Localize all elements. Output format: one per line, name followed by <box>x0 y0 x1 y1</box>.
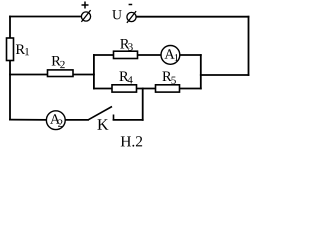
label R5 <box>162 72 175 84</box>
wire junction drop down <box>142 89 144 120</box>
wire mid-left from left wire to R2 <box>10 74 48 76</box>
label R1 <box>16 45 29 56</box>
wire A2 to switch pivot <box>65 119 88 121</box>
ammeter A1 <box>161 46 180 65</box>
wire right side down <box>248 17 250 75</box>
wire A1 to right bar <box>180 54 201 56</box>
switch K blade <box>88 107 112 120</box>
wire R5 to right bar <box>180 88 201 90</box>
wire top branch to R3 <box>94 54 114 56</box>
label R3 <box>120 39 133 51</box>
resistor R5 <box>156 85 180 92</box>
wire R4 to R5 through junction <box>137 88 156 90</box>
terminal - (negative supply post) <box>127 5 136 23</box>
node left bar of parallel block <box>93 55 95 89</box>
wire drop bottom to switch contact <box>114 119 143 121</box>
resistor R1 <box>7 38 14 61</box>
label R2 <box>52 56 65 68</box>
wire bottom branch to R4 <box>94 88 112 90</box>
label R4 <box>119 72 132 84</box>
resistor R4 <box>112 85 137 92</box>
wire bottom-left corner to A2 <box>10 119 46 121</box>
wire top-right from - terminal to right corner <box>136 16 248 18</box>
wire R3 to A1 <box>138 54 162 56</box>
label U <box>112 10 121 19</box>
label K <box>97 119 108 129</box>
wire left side lower segment <box>9 61 11 120</box>
resistor R3 <box>114 51 138 58</box>
terminal + (positive supply post) <box>81 2 90 22</box>
node right bar of parallel block <box>200 55 202 89</box>
switch K contact tick <box>113 115 115 120</box>
wire left side upper segment <box>9 17 11 39</box>
wire mid-right from block right bar to right side <box>201 74 249 76</box>
ammeter A2 <box>46 111 65 130</box>
wire R2 to block left bar <box>73 74 94 76</box>
resistor R2 <box>48 70 74 77</box>
label H.2 caption <box>121 136 142 146</box>
wire top-left from left corner to + terminal <box>10 16 81 18</box>
